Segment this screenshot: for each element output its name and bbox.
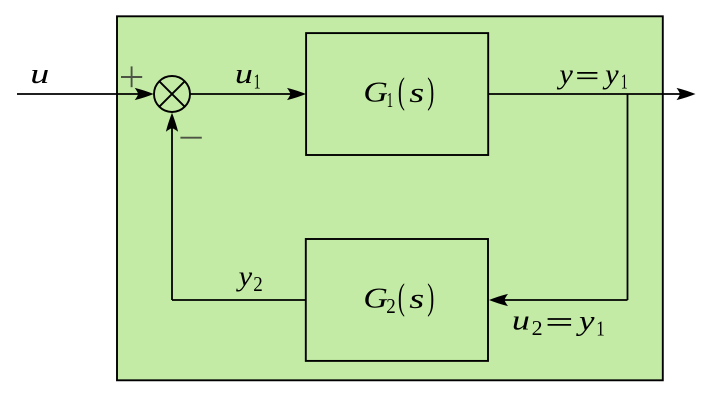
- svg-text:(: (: [398, 276, 405, 317]
- svg-text:2: 2: [532, 316, 543, 340]
- label G2(s): [363, 276, 434, 318]
- svg-text:1: 1: [387, 88, 394, 112]
- summing junction cross: [159, 81, 184, 106]
- svg-text:G: G: [363, 283, 388, 315]
- svg-text:u: u: [235, 58, 253, 90]
- svg-text:1: 1: [596, 316, 605, 340]
- wire: into G2: [493, 299, 628, 301]
- svg-text:s: s: [409, 77, 424, 109]
- svg-text:): ): [427, 70, 434, 111]
- svg-text:y: y: [602, 58, 619, 90]
- svg-text:s: s: [409, 283, 424, 315]
- arrowhead into G2: [489, 294, 508, 306]
- output arrowhead: [677, 88, 696, 100]
- wire: feedback up: [171, 117, 173, 301]
- svg-text:u: u: [30, 58, 49, 90]
- svg-text:(: (: [398, 70, 405, 111]
- svg-text:2: 2: [386, 294, 396, 318]
- svg-text:): ): [427, 276, 434, 317]
- svg-text:y: y: [236, 260, 253, 292]
- block G2: [306, 239, 488, 361]
- wire: u1: [191, 93, 303, 95]
- label u1: [235, 58, 261, 94]
- arrowhead into summing junction bottom: [166, 113, 178, 132]
- svg-text:1: 1: [254, 70, 261, 94]
- block G1: [306, 33, 488, 155]
- system boundary box: [117, 16, 663, 380]
- label y = y1: [556, 58, 627, 93]
- svg-text:y: y: [556, 58, 573, 90]
- arrowhead into G1: [287, 88, 306, 100]
- svg-text:2: 2: [253, 272, 262, 296]
- label minus: [180, 137, 201, 139]
- label G1(s): [363, 70, 434, 112]
- label +: [121, 66, 142, 87]
- label y2: [236, 260, 263, 296]
- label u2 = y1: [512, 305, 605, 341]
- summing junction: [154, 76, 190, 112]
- svg-text:u: u: [512, 305, 530, 337]
- wire: output y: [488, 93, 691, 95]
- wire: feedback branch down: [627, 94, 629, 300]
- svg-text:1: 1: [621, 70, 628, 94]
- wire: y2 horizontal: [172, 299, 306, 301]
- wire: input u: [17, 93, 150, 95]
- svg-text:G: G: [363, 77, 388, 109]
- arrowhead into summing junction: [135, 88, 154, 100]
- svg-text:y: y: [575, 305, 594, 337]
